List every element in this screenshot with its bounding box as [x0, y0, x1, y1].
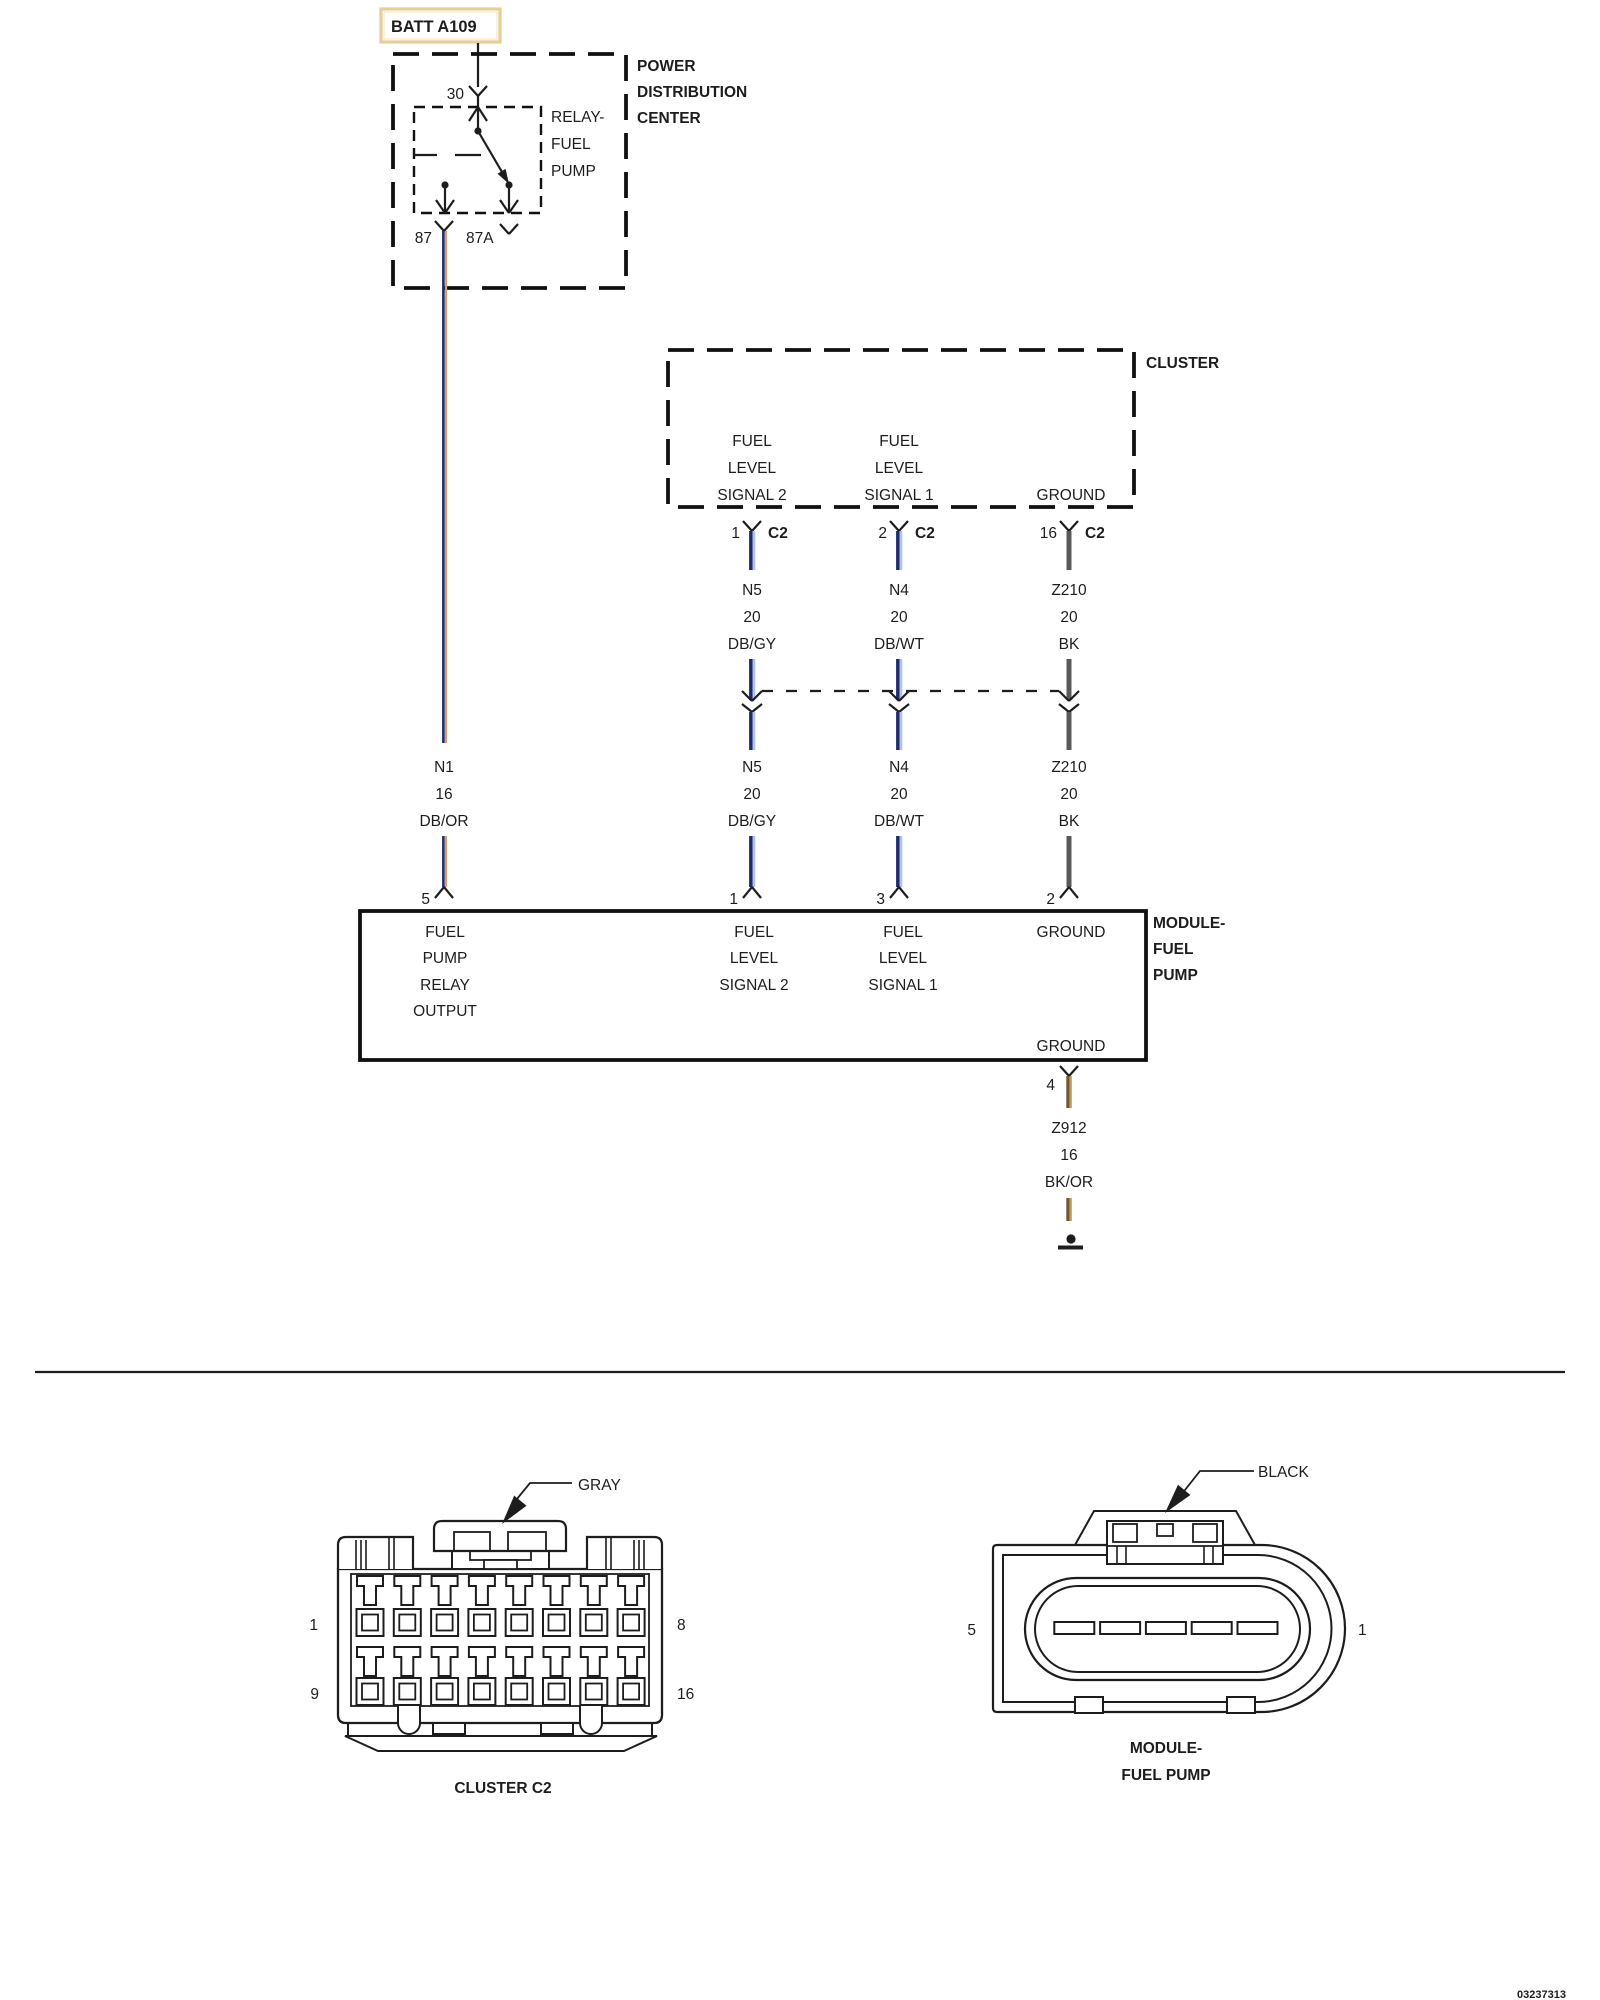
inline connector dashed link line: [762, 690, 1059, 692]
connector face CLUSTER C2 : main body: [338, 1569, 662, 1723]
wire Z210 20 BK upper segment: [1051, 531, 1087, 700]
svg-text:20: 20: [743, 609, 761, 626]
svg-text:GROUND: GROUND: [1037, 924, 1106, 941]
svg-text:SIGNAL 1: SIGNAL 1: [868, 977, 937, 994]
module pin 1 connector: [729, 887, 761, 908]
node BATT A109 (battery feed label box): [381, 9, 500, 42]
svg-text:LEVEL: LEVEL: [879, 950, 928, 967]
connector face MODULE-FUEL PUMP : pin numbers: [967, 1622, 1366, 1639]
svg-text:GROUND: GROUND: [1037, 487, 1106, 504]
svg-text:2: 2: [878, 525, 887, 542]
svg-text:20: 20: [890, 609, 908, 626]
wire N4 20 DB/WT upper segment: [874, 531, 924, 700]
svg-text:PUMP: PUMP: [551, 163, 596, 180]
svg-text:20: 20: [1060, 609, 1078, 626]
svg-text:3: 3: [876, 891, 885, 908]
svg-text:BK/OR: BK/OR: [1045, 1174, 1093, 1191]
svg-text:LEVEL: LEVEL: [728, 460, 777, 477]
svg-text:MODULE-: MODULE-: [1153, 915, 1225, 932]
separator line: [35, 1371, 1565, 1373]
connector face MODULE-FUEL PUMP : top latch: [1075, 1511, 1255, 1545]
svg-text:FUEL: FUEL: [551, 136, 591, 153]
connector face MODULE-FUEL PUMP : outer shell: [993, 1545, 1345, 1712]
wire N1 16 DB/OR (fuel pump relay output): [419, 231, 468, 887]
module label: ground (pin 4): [1037, 1038, 1106, 1055]
connector face CLUSTER C2 : terminal cavities row 2 (pins 9-16): [357, 1678, 645, 1705]
connector face CLUSTER C2 : terminal slots row 1: [357, 1576, 644, 1605]
connector face MODULE-FUEL PUMP : bottom index tabs: [1075, 1697, 1255, 1713]
svg-text:FUEL: FUEL: [732, 433, 772, 450]
svg-text:GROUND: GROUND: [1037, 1038, 1106, 1055]
svg-text:87: 87: [415, 230, 432, 247]
inline connector on N5: [742, 691, 762, 712]
svg-text:N4: N4: [889, 759, 909, 776]
connector face CLUSTER C2 : latch release notches: [398, 1706, 602, 1734]
connector face MODULE-FUEL PUMP : terminal slots (pins 1-5): [1054, 1622, 1277, 1634]
svg-text:SIGNAL 2: SIGNAL 2: [717, 487, 786, 504]
svg-text:20: 20: [743, 786, 761, 803]
svg-text:4: 4: [1046, 1077, 1055, 1094]
wire N5 20 DB/GY lower segment: [728, 712, 776, 887]
relay coil: [414, 154, 481, 156]
connector face CLUSTER C2 : center latch post: [452, 1551, 549, 1569]
connector face MODULE-FUEL PUMP : latch details: [1107, 1521, 1223, 1564]
cluster internal label: fuel level signal 1: [864, 433, 933, 504]
relay RELAY-FUEL PUMP (dashed box): [414, 107, 604, 213]
module label: fuel level signal 2: [719, 924, 788, 994]
cluster internal label: ground: [1037, 487, 1106, 504]
svg-text:30: 30: [447, 86, 465, 103]
svg-text:Z210: Z210: [1051, 759, 1087, 776]
svg-text:20: 20: [890, 786, 908, 803]
svg-text:N5: N5: [742, 759, 762, 776]
wire battery feed to relay pin 30: [477, 43, 479, 87]
svg-text:1: 1: [729, 891, 738, 908]
svg-text:DB/GY: DB/GY: [728, 636, 776, 653]
svg-text:BLACK: BLACK: [1258, 1464, 1309, 1481]
svg-text:FUEL: FUEL: [1153, 941, 1193, 958]
svg-text:FUEL: FUEL: [879, 433, 919, 450]
svg-text:C2: C2: [915, 525, 935, 542]
svg-text:BK: BK: [1059, 813, 1080, 830]
svg-text:N5: N5: [742, 582, 762, 599]
svg-text:FUEL: FUEL: [425, 924, 465, 941]
svg-text:PUMP: PUMP: [423, 950, 468, 967]
ground symbol G: [1058, 1234, 1083, 1247]
connector face CLUSTER C2 : right wing: [587, 1537, 662, 1569]
connector face CLUSTER C2 : latch bar: [434, 1521, 566, 1551]
svg-text:Z912: Z912: [1051, 1120, 1086, 1137]
module label: ground (pin 2): [1037, 924, 1106, 941]
svg-text:N1: N1: [434, 759, 454, 776]
svg-text:OUTPUT: OUTPUT: [413, 1003, 477, 1020]
relay switch blade to 87A: [478, 131, 509, 184]
module pin 5 connector: [421, 887, 453, 908]
svg-text:DB/OR: DB/OR: [419, 813, 468, 830]
svg-text:MODULE-: MODULE-: [1130, 1740, 1202, 1757]
wire N4 20 DB/WT lower segment: [874, 712, 924, 887]
pin 87 connector (female Y): [415, 221, 453, 247]
svg-text:GRAY: GRAY: [578, 1477, 621, 1494]
connector face CLUSTER C2 : caption: [454, 1780, 551, 1797]
svg-text:SIGNAL 2: SIGNAL 2: [719, 977, 788, 994]
wire Z210 20 BK lower segment: [1051, 712, 1087, 887]
module-fuel pump box: [360, 911, 1225, 1060]
cluster pin 2 C2 connector: [878, 521, 934, 542]
svg-text:20: 20: [1060, 786, 1078, 803]
svg-text:CLUSTER C2: CLUSTER C2: [454, 1780, 551, 1797]
svg-text:PUMP: PUMP: [1153, 967, 1198, 984]
module pin 3 connector: [876, 887, 908, 908]
connector face MODULE-FUEL PUMP : BLACK callout: [1165, 1464, 1309, 1513]
svg-text:RELAY: RELAY: [420, 977, 470, 994]
svg-text:16: 16: [677, 1686, 694, 1703]
connector face MODULE-FUEL PUMP : caption: [1121, 1740, 1210, 1784]
svg-text:C2: C2: [768, 525, 788, 542]
svg-text:RELAY-: RELAY-: [551, 109, 604, 126]
svg-text:16: 16: [1040, 525, 1057, 542]
svg-text:DISTRIBUTION: DISTRIBUTION: [637, 84, 747, 101]
svg-text:BK: BK: [1059, 636, 1080, 653]
relay contact 87A: [500, 181, 518, 213]
cluster internal label: fuel level signal 2: [717, 433, 786, 504]
svg-text:BATT A109: BATT A109: [391, 18, 477, 36]
svg-text:1: 1: [309, 1617, 318, 1634]
module label: fuel pump relay output: [413, 924, 477, 1020]
pin 30 connector (female Y): [447, 86, 487, 131]
svg-text:N4: N4: [889, 582, 909, 599]
footer part number: [1517, 1989, 1566, 2000]
svg-text:2: 2: [1046, 891, 1055, 908]
svg-text:C2: C2: [1085, 525, 1105, 542]
inline connector on N4: [889, 691, 909, 712]
wire Z912 16 BK/OR: [1045, 1076, 1093, 1221]
cluster pin 16 C2 connector: [1040, 521, 1105, 542]
pin 87A connector (female, unused): [466, 224, 518, 247]
connector face CLUSTER C2 : terminal cavities row 1 (pins 1-8): [357, 1609, 645, 1636]
connector face CLUSTER C2 : GRAY callout: [502, 1477, 621, 1524]
svg-text:16: 16: [435, 786, 452, 803]
connector face CLUSTER C2 : lower band: [348, 1723, 652, 1736]
svg-text:DB/GY: DB/GY: [728, 813, 776, 830]
svg-text:03237313: 03237313: [1517, 1989, 1566, 2000]
connector face CLUSTER C2 : left wing: [338, 1537, 413, 1569]
module label: fuel level signal 1: [868, 924, 937, 994]
relay common terminal arrow (pin 30 side): [469, 107, 487, 135]
svg-text:8: 8: [677, 1617, 686, 1634]
svg-text:LEVEL: LEVEL: [875, 460, 924, 477]
wire N5 20 DB/GY upper segment: [728, 531, 776, 700]
svg-text:FUEL PUMP: FUEL PUMP: [1121, 1767, 1210, 1784]
cluster pin 1 C2 connector: [731, 521, 787, 542]
svg-text:5: 5: [967, 1622, 976, 1639]
svg-text:87A: 87A: [466, 230, 494, 247]
svg-text:DB/WT: DB/WT: [874, 636, 924, 653]
module pin 2 connector: [1046, 887, 1078, 908]
svg-text:FUEL: FUEL: [883, 924, 923, 941]
svg-text:SIGNAL 1: SIGNAL 1: [864, 487, 933, 504]
cluster box (dashed): [668, 350, 1219, 507]
inline connector on Z210: [1059, 691, 1079, 712]
svg-text:FUEL: FUEL: [734, 924, 774, 941]
svg-text:9: 9: [310, 1686, 319, 1703]
svg-text:1: 1: [1358, 1622, 1367, 1639]
connector face CLUSTER C2 : terminal slots row 2: [357, 1647, 644, 1676]
svg-text:DB/WT: DB/WT: [874, 813, 924, 830]
connector face CLUSTER C2 : bottom plate: [345, 1736, 657, 1751]
svg-text:5: 5: [421, 891, 430, 908]
connector face CLUSTER C2 : pin numbers: [309, 1617, 694, 1703]
module pin 4 connector (female Y): [1046, 1066, 1078, 1094]
relay contact 87: [436, 181, 454, 213]
svg-text:1: 1: [731, 525, 740, 542]
svg-text:16: 16: [1060, 1147, 1077, 1164]
connector face CLUSTER C2 : band keys: [433, 1723, 573, 1734]
svg-text:LEVEL: LEVEL: [730, 950, 779, 967]
svg-text:Z210: Z210: [1051, 582, 1087, 599]
svg-text:CENTER: CENTER: [637, 110, 701, 127]
svg-text:POWER: POWER: [637, 58, 696, 75]
svg-text:CLUSTER: CLUSTER: [1146, 355, 1219, 372]
connector face MODULE-FUEL PUMP : inner stadium: [1025, 1578, 1310, 1680]
power distribution center box (dashed): [393, 54, 747, 288]
